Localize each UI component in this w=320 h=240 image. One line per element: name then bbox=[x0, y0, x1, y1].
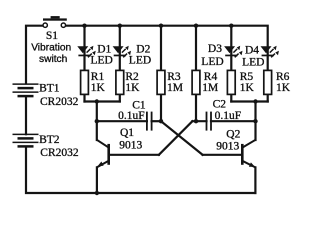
transistor Q1 bbox=[97, 140, 109, 168]
wire: R4 bottom lead bbox=[195, 94, 197, 121]
LED D3 bbox=[224, 46, 242, 58]
transistor Q2 bbox=[242, 140, 255, 168]
node dot R4 C2 junction bbox=[194, 119, 198, 123]
node dot top rail R4 bbox=[194, 24, 198, 28]
wire: D1 branch vertical bbox=[83, 26, 85, 71]
node dot top rail R3 bbox=[159, 24, 163, 28]
svg-text:1K: 1K bbox=[91, 82, 106, 94]
resistor R6 bbox=[264, 70, 272, 94]
wire: R6 bottom lead bbox=[267, 94, 269, 101]
capacitor C2 bbox=[207, 112, 212, 131]
battery BT2 bbox=[13, 134, 39, 146]
LED D4 bbox=[261, 46, 279, 58]
wire: left rail between batteries bbox=[25, 96, 27, 134]
svg-text:BT2: BT2 bbox=[39, 134, 60, 146]
wire: R3 bottom lead bbox=[160, 94, 162, 121]
wire: left rail lower and bottom rail bbox=[26, 147, 255, 193]
wire: Q2 emitter vertical bbox=[254, 167, 256, 193]
LED D2 bbox=[113, 46, 131, 58]
node dot Q1 emitter on bottom rail bbox=[95, 191, 99, 195]
battery BT1 bbox=[13, 84, 39, 96]
svg-text:Q1: Q1 bbox=[120, 127, 134, 139]
wire: top rail left segment and left rail upper bbox=[26, 26, 43, 84]
svg-text:CR2032: CR2032 bbox=[40, 147, 79, 159]
svg-text:R6: R6 bbox=[276, 71, 290, 83]
capacitor C1 bbox=[147, 112, 152, 131]
node dot C1 tap on Q1 collector bbox=[95, 119, 99, 123]
svg-text:BT1: BT1 bbox=[39, 83, 60, 95]
svg-text:CR2032: CR2032 bbox=[40, 96, 79, 108]
wire: top rail right of switch with right drop to D4 bbox=[66, 26, 268, 71]
svg-text:1M: 1M bbox=[167, 82, 183, 94]
wire: D2 branch vertical bbox=[119, 26, 121, 71]
svg-text:R1: R1 bbox=[91, 71, 105, 83]
resistor R4 bbox=[192, 70, 200, 94]
svg-text:LED: LED bbox=[129, 55, 151, 67]
node dot top rail D2 bbox=[118, 24, 122, 28]
resistor R5 bbox=[227, 70, 235, 94]
svg-text:switch: switch bbox=[39, 54, 67, 65]
wire: R1 bottom lead bbox=[83, 94, 85, 101]
wire: Q2 base horizontal bbox=[203, 154, 243, 156]
LED D1 bbox=[77, 46, 95, 58]
svg-text:0.1uF: 0.1uF bbox=[118, 110, 145, 122]
resistor R2 bbox=[116, 70, 124, 94]
node dot C2 tap on Q2 collector bbox=[253, 119, 257, 123]
svg-text:LED: LED bbox=[91, 55, 113, 67]
wire: C2 right lead bbox=[211, 120, 256, 122]
svg-text:R4: R4 bbox=[204, 71, 218, 83]
svg-text:S1: S1 bbox=[46, 30, 58, 42]
wire: cross coupling diagonal C1 to Q2 base bbox=[161, 121, 203, 155]
wire: R3 branch vertical bbox=[160, 26, 162, 71]
wire: cross coupling diagonal C2 to Q1 base bbox=[159, 121, 193, 155]
svg-text:LED: LED bbox=[201, 56, 223, 68]
resistor R3 bbox=[157, 70, 165, 94]
svg-text:1K: 1K bbox=[125, 82, 140, 94]
svg-text:R5: R5 bbox=[240, 71, 254, 83]
wire: C2 left lead bbox=[192, 120, 206, 122]
svg-text:1K: 1K bbox=[276, 82, 291, 94]
node dot R3 C1 junction bbox=[159, 119, 163, 123]
svg-text:LED: LED bbox=[242, 56, 264, 68]
svg-text:Q2: Q2 bbox=[226, 129, 240, 141]
node dot R1-R2 collector junction bbox=[95, 99, 99, 103]
node dot top rail D3 bbox=[229, 24, 233, 28]
wire: Q1 collector vertical bbox=[96, 102, 98, 141]
svg-text:0.1uF: 0.1uF bbox=[215, 110, 242, 122]
svg-text:9013: 9013 bbox=[216, 140, 239, 152]
svg-text:1M: 1M bbox=[202, 82, 218, 94]
node dot top rail D1 bbox=[82, 24, 86, 28]
wire: Q2 collector vertical bbox=[254, 102, 256, 141]
svg-text:Vibration: Vibration bbox=[31, 43, 71, 54]
svg-text:D4: D4 bbox=[245, 45, 259, 57]
wire: R1-R2 junction bar bbox=[85, 100, 120, 102]
wire: R5-R6 junction bar bbox=[231, 100, 267, 102]
svg-text:C2: C2 bbox=[213, 98, 227, 110]
wire: Q1 emitter vertical bbox=[96, 167, 98, 193]
svg-text:9013: 9013 bbox=[119, 140, 142, 152]
wire: R5 bottom lead bbox=[230, 94, 232, 101]
wire: R4 branch vertical bbox=[195, 26, 197, 71]
wire: C1 right lead bbox=[152, 120, 161, 122]
wire: R2 bottom lead bbox=[119, 94, 121, 101]
wire: D3 branch vertical bbox=[230, 26, 232, 71]
wire: Q1 base horizontal bbox=[109, 154, 159, 156]
svg-text:1K: 1K bbox=[240, 82, 255, 94]
switch S1 bbox=[43, 16, 67, 27]
wire: C1 left lead bbox=[97, 120, 147, 122]
node dot R5-R6 collector junction bbox=[253, 99, 257, 103]
svg-text:R3: R3 bbox=[167, 71, 181, 83]
resistor R1 bbox=[81, 70, 89, 94]
svg-text:D3: D3 bbox=[208, 43, 222, 55]
svg-text:R2: R2 bbox=[125, 71, 139, 83]
